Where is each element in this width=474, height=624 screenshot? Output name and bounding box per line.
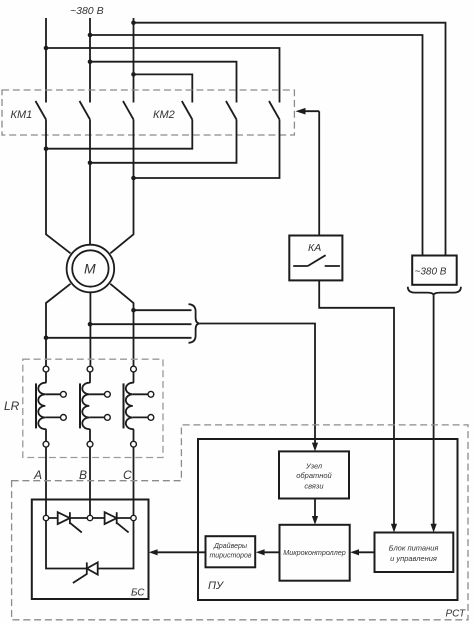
wire phase L1 (45, 18, 47, 103)
svg-text:Блок питания: Блок питания (389, 544, 439, 553)
wire supply to power block (433, 295, 435, 525)
thyristor VS1 (58, 512, 70, 524)
contact KM1.2 (80, 101, 91, 120)
node L3 tap2 (131, 72, 136, 77)
PU box (198, 439, 458, 600)
reactor LR-B (80, 366, 110, 447)
wire feedback tap A (46, 337, 192, 339)
contact KM2.1 (182, 101, 193, 120)
wire bus AB (49, 517, 88, 519)
node A link (44, 146, 49, 151)
svg-text:М: М (84, 261, 96, 277)
node C link (131, 176, 136, 181)
wire bus BC (93, 517, 131, 519)
wire feedback unit to microcontroller (314, 499, 316, 518)
wire KA to power block (319, 280, 394, 525)
brace feedback bundle (189, 304, 200, 343)
arrow KA to contactor box (303, 110, 319, 112)
microcontroller box (280, 525, 350, 581)
wire KA coil feed (318, 111, 320, 235)
svg-text:РСТ: РСТ (446, 609, 467, 620)
wire feedback to node (200, 324, 315, 445)
svg-text:~380 В: ~380 В (70, 5, 104, 17)
wire KM1.2 bottom to motor (89, 120, 91, 246)
svg-text:обратной: обратной (296, 471, 332, 480)
node B link (88, 161, 93, 166)
contact KM1.1 (36, 101, 47, 120)
svg-text:КМ1: КМ1 (11, 109, 33, 121)
wire KM2.1 bottom link (46, 120, 192, 149)
wire power block to microcontroller (357, 551, 375, 553)
relay KA contact (293, 255, 340, 266)
wire KM1.3 bottom to motor (110, 120, 133, 254)
wire motor bottom C (110, 284, 133, 366)
wire feedback tap C (134, 309, 192, 311)
wire feedback tap B (90, 323, 192, 325)
wire motor bottom B (89, 292, 91, 366)
wire reactor B to thyristor block (89, 447, 91, 515)
contact KM1.3 (123, 101, 134, 120)
wire L2 branch to right supply (90, 35, 423, 256)
node L2 tap (88, 33, 93, 38)
contact KM2.2 (226, 101, 237, 120)
wire lower loop (46, 521, 134, 569)
wire L3 branch to KM2 left contact (134, 74, 193, 102)
svg-text:С: С (123, 468, 132, 482)
power supply and control box (375, 533, 454, 573)
node A terminal (43, 515, 48, 520)
node B terminal (87, 515, 92, 520)
wire KM2.2 bottom link (90, 120, 237, 163)
arrow into feedback unit (312, 443, 318, 452)
svg-text:КА: КА (308, 242, 321, 254)
arrow into microcontroller (312, 516, 318, 525)
svg-text:тиристоров: тиристоров (209, 553, 251, 560)
motor M (67, 245, 115, 293)
arrow drivers to thyristor block (156, 551, 206, 553)
svg-text:ПУ: ПУ (208, 580, 224, 592)
wire L3 branch to right supply (134, 23, 446, 256)
svg-text:Драйверы: Драйверы (213, 542, 248, 550)
thyristor VS3 (87, 562, 98, 574)
svg-text:связи: связи (304, 482, 324, 491)
wire phase L3 (133, 18, 135, 103)
svg-text:КМ2: КМ2 (153, 109, 175, 121)
RST dashed boundary (12, 425, 468, 620)
right supply box ~380 V (412, 256, 457, 285)
wire microcontroller to drivers (263, 551, 280, 553)
reactor dashed box LR (23, 359, 163, 457)
svg-text:Микроконтроллер: Микроконтроллер (283, 548, 346, 557)
contact KM2.3 (269, 101, 280, 120)
drivers box (206, 536, 256, 567)
node L2 tap2 (88, 59, 93, 64)
node tap C (131, 308, 136, 313)
svg-text:БС: БС (131, 588, 145, 599)
node L3 tap (131, 20, 136, 25)
reactor LR-C (124, 366, 154, 447)
feedback unit box (279, 451, 349, 498)
wire KM1.1 bottom to motor (46, 120, 71, 254)
node L1 tap (44, 46, 49, 51)
contactor dashed box (2, 90, 294, 135)
svg-text:и управления: и управления (390, 554, 437, 563)
thyristor VS2 (105, 512, 117, 524)
svg-text:В: В (79, 468, 87, 482)
svg-text:~380 В: ~380 В (415, 267, 447, 278)
BS box (thyristor block) (32, 500, 149, 600)
relay KA box (289, 236, 342, 281)
node tap B (88, 322, 93, 327)
brace under supply box (408, 287, 461, 296)
wire KM2.3 bottom link (134, 120, 280, 179)
node tap A (44, 336, 49, 341)
wire motor bottom A (46, 284, 71, 366)
wire phase L2 (89, 18, 91, 103)
node C terminal (131, 515, 136, 520)
wire L1 branch to KM2 right contact (46, 48, 280, 103)
wire reactor C to thyristor block (133, 447, 135, 515)
arrow into power block (from KA) (391, 524, 397, 533)
svg-text:А: А (33, 468, 42, 482)
svg-text:LR: LR (4, 399, 20, 413)
wire L2 branch to KM2 middle contact (90, 62, 237, 103)
svg-text:Узел: Узел (305, 462, 323, 471)
reactor LR-A (36, 366, 66, 447)
arrow into power block (from supply) (431, 524, 437, 533)
wire reactor A to thyristor block (45, 447, 47, 515)
